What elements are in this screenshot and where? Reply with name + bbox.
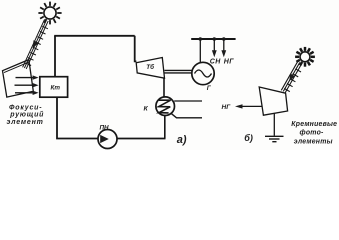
junction dot [199,37,203,41]
sun (section a) [38,2,61,25]
condenser K [156,97,175,116]
svg-text:б): б) [244,133,253,143]
shaft turbine-generator [165,69,193,71]
junction dot [222,37,226,41]
junction dot [213,37,217,41]
label Фокусирующий элемент [7,105,45,126]
beam direction arrowhead [289,74,295,82]
generator lead to busbar [199,39,201,63]
cooling water line lower [171,113,202,118]
svg-text:рующий: рующий [9,110,44,118]
svg-text:Г: Г [207,85,212,92]
focused ray arrow 1 [16,75,39,79]
turbine Tb [136,58,164,79]
focused ray arrow 3 [15,91,39,95]
output wire НГ with arrow [235,104,262,108]
load arrow СН [212,39,217,57]
photocell panel [259,87,287,115]
cooling water line upper [174,100,202,102]
ground symbol [265,136,284,141]
svg-text:НГ: НГ [222,104,232,111]
steam pipe: boiler top up [54,36,56,77]
boiler box Kt [40,77,68,98]
ground wire [273,113,275,136]
svg-text:фото-: фото- [300,129,325,136]
svg-text:Кт: Кт [51,85,61,92]
sun (section b) [295,47,315,67]
feed pump ПН [98,130,117,149]
focusing mirror panel [3,60,34,98]
light beam (section b) [281,61,302,92]
generator G [192,62,214,84]
svg-text:а): а) [177,134,187,146]
label Кремниевые фотоэлементы [291,121,337,146]
svg-text:Кремниевые: Кремниевые [291,121,337,128]
pipe turbine to condenser [163,78,165,97]
panel sketch double edge [4,62,29,73]
light beam (section a) [23,19,49,69]
svg-text:Тб: Тб [146,63,155,71]
svg-text:ПН: ПН [100,125,110,132]
pipe condenser down [164,115,166,138]
svg-text:К: К [144,106,149,113]
svg-text:элементы: элементы [294,138,333,145]
pipe pump to boiler [57,97,98,138]
busbar [191,38,235,40]
svg-text:НГ: НГ [224,59,234,66]
condensate pipe bottom [117,138,166,140]
svg-text:элемент: элемент [7,119,44,126]
load arrow НГ [221,39,226,57]
steam pipe: top horizontal [54,35,135,37]
focused ray arrow 2 [15,83,39,87]
svg-text:СН: СН [210,59,221,66]
steam pipe: down to turbine [135,36,137,62]
beam direction arrowhead [33,40,39,48]
